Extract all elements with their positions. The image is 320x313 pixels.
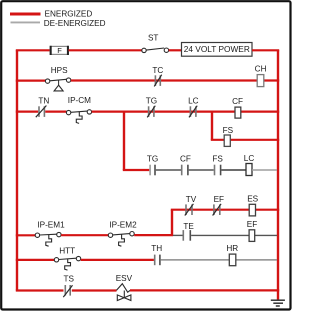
contact TE (NO) — [183, 222, 194, 241]
wire rung3 IP-CM to CF to right rail — [92, 110, 280, 112]
wire rung5 vertical from rung6 — [171, 210, 173, 236]
svg-text:ESV: ESV — [116, 274, 133, 283]
coil EF rung6 — [247, 220, 257, 242]
svg-text:TG: TG — [146, 97, 157, 106]
contact TH (NO) — [151, 244, 162, 265]
wire rung4 red segment — [123, 169, 150, 171]
contact TG (NO) rung4 — [147, 155, 158, 176]
wire rung7 left rail to HTT — [16, 259, 55, 261]
wire rung2 left rail to HPS — [16, 79, 46, 81]
contact EF (NC) rung5 — [213, 195, 224, 216]
wire junction to TE — [173, 234, 183, 236]
contact TV (NC) — [185, 195, 197, 216]
solenoid valve ESV — [116, 274, 133, 301]
overload switch IP-CM — [66, 96, 91, 124]
svg-text:TE: TE — [183, 222, 194, 231]
right power rail L2 — [277, 50, 279, 300]
svg-text:ST: ST — [148, 34, 158, 43]
contact TN (NC) — [36, 96, 50, 117]
svg-text:DE-ENERGIZED: DE-ENERGIZED — [44, 19, 106, 28]
wire rung5 TV EF ES to right rail — [171, 209, 279, 211]
svg-text:LC: LC — [188, 97, 199, 106]
svg-text:EF: EF — [247, 220, 257, 229]
svg-text:CF: CF — [180, 155, 191, 164]
overload switch IP-EM2 — [108, 221, 137, 247]
svg-text:HTT: HTT — [59, 246, 75, 255]
thermostat switch HTT — [54, 246, 80, 270]
overload switch IP-EM1 — [35, 221, 65, 247]
wire rung8 left rail to TS — [16, 289, 64, 291]
wire IP-EM2 to junction rung5 — [134, 234, 173, 236]
left power rail L1 — [16, 50, 18, 290]
wire HTT to TH — [81, 259, 154, 261]
legend de-energized line — [11, 21, 41, 23]
svg-text:HR: HR — [226, 244, 238, 253]
wire TG to CF rung4 — [156, 169, 181, 171]
svg-text:HPS: HPS — [51, 66, 68, 75]
svg-text:TV: TV — [186, 195, 197, 204]
svg-text:TC: TC — [152, 66, 163, 75]
wire FS to LC coil rung4 — [221, 169, 246, 171]
svg-text:ENERGIZED: ENERGIZED — [45, 10, 93, 19]
svg-text:CH: CH — [255, 65, 267, 74]
wire fuse to ST — [69, 49, 142, 51]
ground symbol — [271, 300, 285, 306]
contact CF (NO) rung4 — [180, 155, 191, 176]
svg-text:TH: TH — [151, 244, 162, 253]
svg-text:LC: LC — [244, 154, 255, 163]
wire drop rung3 to rung4 — [123, 112, 125, 170]
svg-text:IP-EM1: IP-EM1 — [37, 221, 65, 230]
switch ST — [142, 34, 169, 53]
coil LC — [244, 154, 255, 176]
fuse F — [50, 46, 68, 55]
svg-text:ES: ES — [247, 194, 258, 203]
coil CH — [255, 65, 267, 87]
wire rung2 HPS to CH to right rail — [71, 79, 279, 81]
svg-text:FS: FS — [223, 126, 234, 135]
24 volt power box — [182, 43, 253, 57]
svg-text:IP-CM: IP-CM — [68, 96, 91, 105]
contact TC (NC) — [152, 66, 163, 87]
wire TH to HR coil to right rail (de-energized) — [161, 259, 277, 261]
coil HR — [226, 244, 238, 266]
wire branch rung3 down to FS — [211, 112, 213, 140]
svg-text:FS: FS — [212, 155, 223, 164]
wire rung1 left — [16, 49, 50, 51]
wire rung3 left rail to IP-CM — [16, 110, 38, 112]
wire LC coil to right rail (de-energized) — [252, 169, 277, 171]
wire ST to 24V box — [169, 49, 182, 51]
contact TG (NC) rung3 — [146, 97, 157, 118]
svg-text:IP-EM2: IP-EM2 — [109, 221, 137, 230]
contact TS (NC) — [63, 275, 74, 298]
contact FS (NO) rung4 — [212, 155, 223, 176]
svg-text:F: F — [57, 46, 62, 55]
wire 24V box to right rail — [252, 49, 279, 51]
wire FS branch to right rail — [211, 139, 279, 141]
svg-text:TN: TN — [38, 96, 49, 105]
svg-text:TS: TS — [63, 275, 74, 284]
legend energized line — [10, 13, 41, 16]
wire TE to EF coil to right rail — [191, 234, 277, 236]
coil ES — [247, 194, 258, 216]
svg-text:TG: TG — [147, 155, 158, 164]
contact LC (NC) rung3 — [188, 97, 199, 118]
pressure switch HPS — [45, 66, 70, 91]
svg-text:CF: CF — [232, 97, 243, 106]
coil CF — [232, 97, 243, 118]
wire ESV to right rail — [130, 289, 279, 291]
svg-text:EF: EF — [214, 195, 224, 204]
svg-text:24 VOLT POWER: 24 VOLT POWER — [184, 44, 250, 54]
wire IP-EM1 to IP-EM2 — [61, 234, 108, 236]
wire rung6 left rail to IP-EM1 — [16, 234, 36, 236]
coil FS — [223, 126, 234, 146]
wire CF to FS rung4 — [189, 169, 214, 171]
